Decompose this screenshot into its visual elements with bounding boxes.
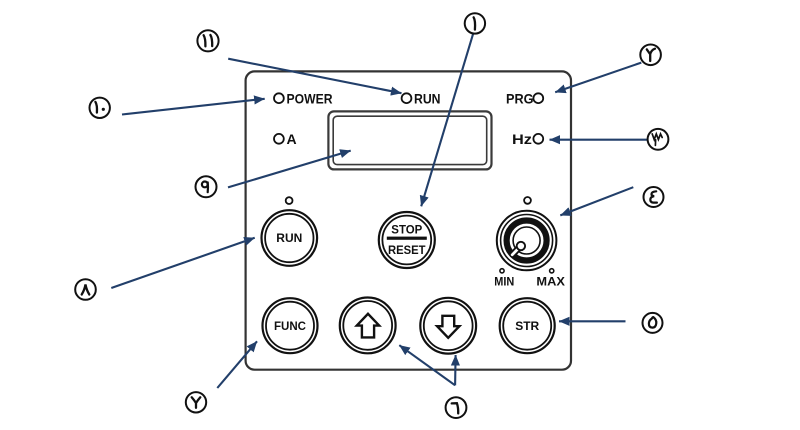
callout 11 — [197, 30, 218, 51]
RUN button — [262, 210, 318, 266]
callout 9 — [196, 176, 217, 197]
potentiometer knob — [497, 211, 557, 271]
svg-text:STR: STR — [515, 319, 539, 333]
arrow to POWER LED (callout 10) — [122, 99, 265, 115]
UP arrow button — [340, 298, 396, 354]
arrow to RUN LED (callout 11) — [228, 59, 401, 93]
arrow to RUN button (callout 8) — [111, 238, 254, 288]
LCD display — [328, 111, 491, 169]
svg-text:FUNC: FUNC — [274, 319, 306, 333]
RUN LED — [402, 93, 412, 103]
STOP/RESET button — [379, 212, 435, 268]
callout 7 — [186, 392, 206, 412]
arrow to Hz LED (callout 3) — [550, 139, 648, 141]
svg-text:Hz: Hz — [512, 131, 532, 147]
svg-text:A: A — [287, 131, 297, 147]
callout 10 — [90, 98, 110, 118]
FUNC button — [263, 298, 318, 353]
callout 6 — [446, 397, 467, 418]
callout 3 — [648, 129, 669, 150]
arrow to UP button (callout 6) — [399, 345, 455, 385]
svg-text:MAX: MAX — [536, 274, 565, 288]
STR button — [500, 298, 555, 353]
callout 4 — [644, 187, 664, 207]
arrow to FUNC button (callout 7) — [217, 341, 257, 388]
arrow to STOP button (callout 1) — [421, 34, 473, 206]
MAX dot — [550, 269, 554, 273]
DOWN arrow button — [420, 298, 476, 354]
keypad panel outline — [246, 71, 571, 369]
PRG LED — [533, 93, 543, 103]
svg-text:RESET: RESET — [388, 243, 426, 257]
svg-text:PRG: PRG — [506, 91, 534, 107]
callout 2 — [640, 45, 661, 66]
svg-text:POWER: POWER — [287, 91, 333, 107]
callout 5 — [643, 313, 663, 333]
A LED — [274, 134, 284, 144]
svg-text:MIN: MIN — [494, 274, 514, 288]
callout 1 — [465, 13, 485, 33]
arrow to PRG LED (callout 2) — [555, 63, 641, 93]
svg-text:RUN: RUN — [276, 233, 302, 245]
Hz LED — [533, 134, 543, 144]
svg-text:STOP: STOP — [391, 223, 422, 237]
knob LED — [524, 197, 531, 204]
arrow to DOWN button (callout 6) — [454, 355, 457, 385]
MIN dot — [500, 269, 504, 273]
POWER LED — [274, 93, 284, 103]
RUN button LED — [286, 197, 293, 204]
arrow to knob (callout 4) — [560, 187, 633, 215]
arrow to STR button (callout 5) — [559, 320, 626, 322]
arrow to LCD display (callout 9) — [228, 151, 351, 188]
callout 8 — [75, 279, 96, 300]
svg-text:RUN: RUN — [414, 91, 441, 107]
